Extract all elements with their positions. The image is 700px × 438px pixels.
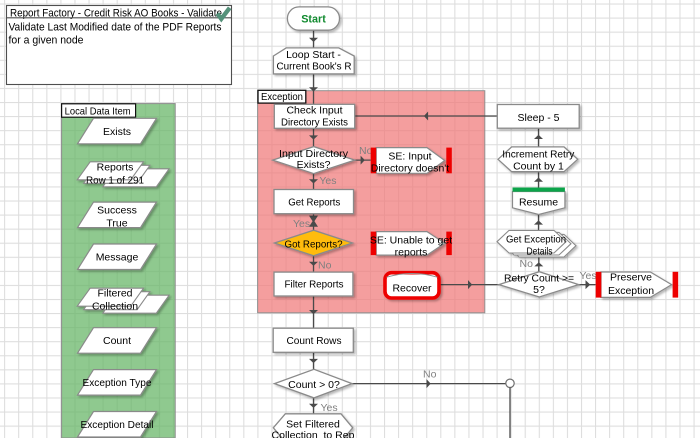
calculation Get Exception Details (stacked): [497, 230, 576, 257]
action Get Reports: [274, 190, 354, 214]
Local Data Item label: [62, 104, 136, 118]
collection Filtered Collection: [77, 288, 169, 313]
svg-text:Row 1 of 291: Row 1 of 291: [86, 174, 144, 186]
exception stage Preserve Exception: [601, 272, 672, 297]
node anchor circle: [506, 379, 514, 387]
svg-text:Recover: Recover: [392, 282, 432, 294]
svg-text:No: No: [318, 260, 332, 272]
pink exception block: [258, 91, 485, 313]
svg-text:Exception: Exception: [608, 285, 654, 297]
svg-text:Sleep - 5: Sleep - 5: [517, 112, 559, 124]
svg-text:Check Input: Check Input: [286, 105, 342, 117]
svg-text:Reports: Reports: [97, 161, 134, 173]
svg-text:No: No: [359, 145, 373, 157]
calculation Increment Retry Count by 1: [498, 147, 578, 172]
green checkmark icon: [217, 8, 229, 19]
svg-text:Exception Type: Exception Type: [83, 377, 152, 389]
svg-text:Yes: Yes: [293, 218, 310, 230]
svg-text:Collection: Collection: [92, 301, 138, 313]
svg-text:True: True: [106, 217, 127, 229]
svg-text:Current Book's R: Current Book's R: [277, 61, 352, 73]
data item Message: [78, 244, 157, 270]
svg-text:Count > 0?: Count > 0?: [288, 379, 340, 391]
svg-text:Count Rows: Count Rows: [287, 335, 342, 347]
svg-text:Yes: Yes: [321, 402, 338, 414]
wire Increment up to Sleep: [538, 128, 540, 147]
svg-text:Validate Last Modified date of: Validate Last Modified date of the PDF R…: [9, 22, 222, 34]
svg-text:for a given node: for a given node: [9, 35, 84, 47]
wire GotReports No to FilterReports: [313, 256, 315, 272]
data item Exception Detail: [78, 412, 157, 438]
resume stage: [513, 192, 565, 215]
svg-text:Count: Count: [103, 335, 131, 347]
svg-text:Retry Count >=: Retry Count >=: [504, 273, 574, 285]
svg-text:Get Reports: Get Reports: [288, 197, 340, 209]
svg-text:Start: Start: [301, 14, 326, 26]
svg-text:Success: Success: [97, 204, 137, 216]
wire CountRows to Count0: [313, 352, 315, 369]
collection Reports: [77, 162, 169, 187]
data item Count: [78, 328, 157, 354]
svg-text:5?: 5?: [533, 284, 545, 296]
svg-text:Yes: Yes: [580, 270, 597, 282]
decision Got Reports? (orange): [275, 230, 353, 256]
wire CheckInput to InputDir decision: [313, 128, 315, 146]
wire InputDir Yes to GetReports: [313, 174, 315, 191]
action Check Input Directory Exists: [274, 104, 354, 128]
exception stage SE: Input Directory doesn't: [376, 148, 445, 174]
wire Count0 No to anchor circle: [352, 383, 506, 385]
wire Sleep left to CheckInput: [355, 115, 498, 117]
decision Count > 0?: [275, 369, 353, 398]
svg-text:Details: Details: [527, 245, 553, 257]
svg-text:Loop Start -: Loop Start -: [286, 49, 341, 61]
svg-text:Collection to Rep: Collection to Rep: [272, 430, 355, 438]
svg-text:Set Filtered: Set Filtered: [286, 418, 340, 430]
svg-text:Exists?: Exists?: [297, 159, 331, 171]
wire Retry Yes to Preserve: [579, 284, 596, 286]
data item Exists: [78, 118, 157, 144]
wire FilterReports to CountRows: [313, 296, 315, 328]
svg-text:Exception Detail: Exception Detail: [81, 419, 154, 431]
process info box: [7, 6, 232, 85]
svg-text:No: No: [520, 258, 534, 270]
data item Exception Type: [78, 370, 157, 396]
wire Recover to Retry: [441, 284, 499, 286]
svg-text:Directory doesn't: Directory doesn't: [371, 163, 450, 175]
wire anchor down: [509, 388, 511, 438]
Exception block label: [258, 90, 306, 103]
svg-text:Directory Exists: Directory Exists: [281, 117, 348, 129]
svg-text:Exists: Exists: [103, 126, 131, 138]
wire LoopStart to CheckInput: [313, 74, 315, 104]
exception stage SE: Unable to get reports: [376, 232, 445, 256]
action Sleep - 5: [497, 105, 579, 129]
svg-text:Message: Message: [96, 252, 139, 264]
svg-text:Get Exception: Get Exception: [506, 233, 566, 245]
svg-text:Increment Retry: Increment Retry: [502, 149, 575, 161]
svg-text:Exception: Exception: [261, 91, 303, 103]
svg-text:reports: reports: [395, 246, 428, 258]
decision Retry Count >= 5?: [499, 272, 579, 297]
start node: [287, 7, 339, 30]
svg-text:SE: Unable to get: SE: Unable to get: [370, 234, 452, 246]
data item Success True: [78, 202, 157, 228]
wire Retry No up to GetExc: [538, 253, 540, 272]
wire InputDir No to SE1: [355, 159, 371, 161]
svg-text:SE: Input: SE: Input: [388, 151, 431, 163]
green data panel: [62, 104, 176, 438]
wire Resume up to Increment: [538, 172, 540, 188]
svg-text:No: No: [423, 369, 437, 381]
wire GetReports to GotReports (two overlapping arrows): [313, 214, 315, 231]
svg-text:Resume: Resume: [519, 196, 558, 208]
loop start stage: [273, 48, 354, 74]
svg-text:Filter Reports: Filter Reports: [285, 279, 344, 291]
svg-text:Count by 1: Count by 1: [513, 161, 564, 173]
svg-text:Got Reports?: Got Reports?: [285, 238, 343, 250]
action Count Rows: [273, 328, 353, 352]
svg-text:Filtered: Filtered: [97, 288, 132, 300]
calculation Set Filtered Collection to Rep: [273, 414, 352, 438]
svg-text:Preserve: Preserve: [610, 271, 652, 283]
decision Input Directory Exists?: [273, 147, 355, 174]
wire Start to LoopStart: [313, 30, 315, 48]
wire Count0 Yes to SetFiltered: [313, 398, 315, 414]
recover stage: [385, 273, 439, 298]
svg-text:Local Data Item: Local Data Item: [65, 106, 131, 118]
wire GetExc up to Resume: [538, 215, 540, 231]
action Filter Reports: [274, 272, 353, 296]
svg-text:Yes: Yes: [319, 175, 336, 187]
